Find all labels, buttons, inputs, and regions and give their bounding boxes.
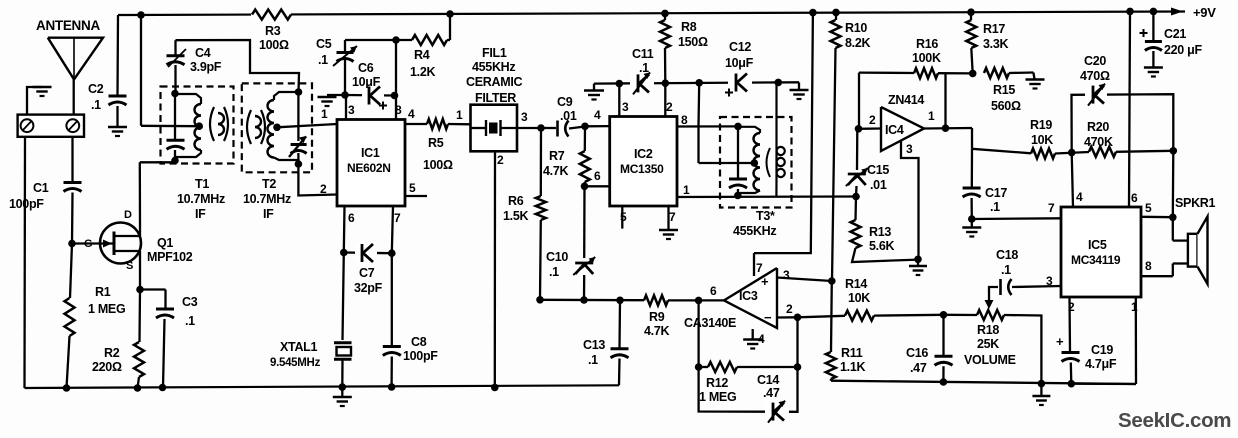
svg-text:1.1K: 1.1K bbox=[840, 360, 865, 374]
wire gate bbox=[72, 242, 101, 244]
svg-text:R14: R14 bbox=[845, 277, 867, 291]
svg-text:.01: .01 bbox=[870, 178, 887, 192]
svg-text:5: 5 bbox=[409, 181, 416, 195]
wire IC4 pin3 bbox=[901, 142, 919, 260]
wire antenna feed bbox=[73, 79, 75, 117]
svg-text:3: 3 bbox=[783, 268, 790, 282]
node T1 bottom bbox=[171, 157, 179, 165]
op-amp IC4 ZN414 bbox=[881, 107, 924, 151]
node T3 bottom bbox=[734, 192, 742, 200]
svg-text:3: 3 bbox=[348, 103, 355, 117]
wire IC5 pin4 bbox=[1072, 153, 1073, 207]
wiper R18 bbox=[988, 288, 990, 303]
svg-text:SPKR1: SPKR1 bbox=[1175, 196, 1216, 210]
winding T2 secondary bbox=[274, 92, 299, 100]
svg-text:10μF: 10μF bbox=[352, 75, 381, 89]
svg-text:ANTENNA: ANTENNA bbox=[36, 18, 100, 33]
svg-text:7: 7 bbox=[394, 211, 401, 225]
node V+ T3 feed bbox=[695, 79, 703, 87]
ground at IC3 pin4 bbox=[752, 329, 754, 339]
IC2 MC1350 bbox=[610, 117, 677, 207]
svg-text:R16: R16 bbox=[916, 37, 938, 51]
wire right terminal to C1 bbox=[71, 137, 73, 181]
wire rail to IC5 pin6 bbox=[1126, 8, 1134, 16]
svg-text:100K: 100K bbox=[912, 51, 941, 65]
svg-text:R18: R18 bbox=[977, 323, 999, 337]
svg-text:G: G bbox=[84, 238, 92, 250]
svg-text:C20: C20 bbox=[1084, 54, 1106, 68]
svg-text:T3*: T3* bbox=[756, 209, 775, 223]
svg-text:C16: C16 bbox=[906, 346, 928, 360]
feedback loop R12 C14 bbox=[796, 317, 798, 367]
svg-text:IC1: IC1 bbox=[361, 146, 380, 160]
svg-text:XTAL1: XTAL1 bbox=[280, 340, 318, 354]
svg-text:10μF: 10μF bbox=[725, 56, 754, 70]
svg-text:455KHz: 455KHz bbox=[472, 60, 515, 74]
wire IC1 pin3 stub bbox=[345, 95, 347, 120]
svg-text:R9: R9 bbox=[649, 310, 665, 324]
node T1 top bbox=[171, 90, 179, 98]
wire FIL1 pin2 to ground rail bbox=[494, 151, 497, 387]
svg-text:10K: 10K bbox=[848, 291, 870, 305]
svg-text:5: 5 bbox=[1145, 201, 1152, 215]
capacitor inside T1 bbox=[167, 139, 185, 142]
svg-text:Q1: Q1 bbox=[157, 236, 173, 250]
svg-text:.1: .1 bbox=[91, 98, 101, 112]
svg-text:R1: R1 bbox=[95, 285, 111, 299]
svg-text:C9: C9 bbox=[557, 95, 573, 109]
svg-text:R7: R7 bbox=[549, 149, 565, 163]
transformer T1 box bbox=[161, 87, 234, 164]
svg-text:.1: .1 bbox=[990, 200, 1000, 214]
svg-text:R11: R11 bbox=[841, 346, 863, 360]
node IC5 pin4 feed bbox=[1068, 149, 1076, 157]
svg-text:C17: C17 bbox=[985, 186, 1007, 200]
node C9 right bbox=[581, 123, 589, 131]
svg-text:.1: .1 bbox=[318, 53, 328, 67]
node IC4 pin2 bbox=[855, 125, 863, 133]
wire signal to IC3 bbox=[536, 296, 544, 304]
wire IC5 pin1 down bbox=[1135, 297, 1137, 384]
svg-text:5: 5 bbox=[620, 210, 627, 224]
wire IC2 pin1 to detector bbox=[677, 195, 856, 198]
svg-text:100pF: 100pF bbox=[9, 197, 44, 211]
svg-text:3: 3 bbox=[906, 142, 913, 156]
ground right of C12 bbox=[798, 82, 800, 89]
wire T2 bottom to IC1 pin2 bbox=[298, 164, 337, 196]
svg-text:3: 3 bbox=[622, 100, 629, 114]
wire IC1 pin5 stub nc bbox=[405, 195, 427, 197]
svg-text:C19: C19 bbox=[1091, 343, 1113, 357]
svg-text:IC5: IC5 bbox=[1088, 238, 1107, 252]
svg-text:.1: .1 bbox=[588, 353, 598, 367]
svg-text:C3: C3 bbox=[182, 295, 198, 309]
svg-text:IC2: IC2 bbox=[634, 147, 653, 161]
svg-text:C1: C1 bbox=[33, 181, 49, 195]
ground below C21 bbox=[1144, 66, 1163, 69]
svg-text:10.7MHz: 10.7MHz bbox=[243, 192, 291, 206]
svg-text:6: 6 bbox=[710, 284, 717, 298]
svg-text:2: 2 bbox=[786, 302, 793, 316]
svg-text:.1: .1 bbox=[639, 61, 649, 75]
wire IC4 output node bbox=[924, 127, 972, 130]
capacitor inside T3 bbox=[737, 126, 739, 178]
svg-text:+: + bbox=[1056, 334, 1064, 349]
svg-text:NE602N: NE602N bbox=[347, 161, 391, 175]
node R20 right bbox=[1170, 147, 1178, 155]
svg-text:C6: C6 bbox=[358, 61, 374, 75]
svg-text:C10: C10 bbox=[546, 250, 568, 264]
svg-text:8.2K: 8.2K bbox=[845, 36, 870, 50]
svg-text:R12: R12 bbox=[706, 376, 728, 390]
svg-text:150Ω: 150Ω bbox=[678, 35, 708, 49]
svg-text:.47: .47 bbox=[910, 361, 927, 375]
svg-text:R10: R10 bbox=[845, 21, 867, 35]
ground below C17 bbox=[971, 219, 973, 227]
resistor R3 bbox=[251, 8, 291, 21]
wire IC3 pin2 bbox=[777, 316, 798, 319]
svg-text:10.7MHz: 10.7MHz bbox=[177, 192, 225, 206]
svg-text:1.5K: 1.5K bbox=[503, 209, 528, 223]
svg-text:IF: IF bbox=[263, 207, 274, 221]
svg-text:.1: .1 bbox=[549, 265, 559, 279]
node IC3 pin3 R10 bbox=[828, 277, 836, 285]
svg-text:C4: C4 bbox=[195, 46, 211, 60]
wire IC5 pin2 C19 bbox=[1068, 297, 1071, 352]
+9V arrow and label bbox=[1171, 8, 1183, 16]
svg-text:32pF: 32pF bbox=[354, 281, 383, 295]
ground at IC4 pin3 bbox=[917, 259, 919, 265]
svg-text:4: 4 bbox=[594, 108, 601, 122]
svg-text:R15: R15 bbox=[993, 83, 1015, 97]
svg-text:C13: C13 bbox=[583, 338, 605, 352]
node T2 bottom bbox=[295, 160, 303, 168]
svg-text:R13: R13 bbox=[869, 225, 891, 239]
node T3 tap bbox=[751, 159, 759, 167]
svg-text:5.6K: 5.6K bbox=[869, 239, 894, 253]
svg-text:+: + bbox=[761, 274, 769, 289]
svg-text:7: 7 bbox=[1048, 201, 1055, 215]
winding T1 secondary link bbox=[210, 107, 214, 141]
wire to IC5 pin7 bbox=[972, 217, 1061, 220]
svg-text:560Ω: 560Ω bbox=[991, 99, 1021, 113]
svg-text:1 MEG: 1 MEG bbox=[699, 390, 736, 404]
svg-text:C11: C11 bbox=[632, 47, 654, 61]
wire IC5 pin5 to speaker bbox=[1141, 216, 1173, 219]
svg-text:R8: R8 bbox=[681, 20, 697, 34]
node T1 tap bbox=[195, 122, 203, 130]
svg-text:1: 1 bbox=[928, 109, 935, 123]
svg-text:R5: R5 bbox=[428, 136, 444, 150]
ground left of C11 bbox=[584, 89, 604, 92]
svg-text:220 μF: 220 μF bbox=[1164, 43, 1202, 57]
svg-text:9.545MHz: 9.545MHz bbox=[270, 357, 321, 369]
ground below XTAL1 bbox=[341, 387, 343, 396]
svg-text:10K: 10K bbox=[1031, 133, 1053, 147]
wire ground rail bottom bbox=[25, 385, 620, 388]
svg-text:R2: R2 bbox=[104, 346, 120, 360]
ground after R15 bbox=[1033, 73, 1034, 80]
wire IC3 pin7 bbox=[753, 253, 755, 276]
wire IC1 pin7 stub bbox=[392, 206, 393, 253]
node C17 ground bbox=[968, 215, 976, 223]
svg-text:R17: R17 bbox=[983, 22, 1005, 36]
ground at IC1 pin3 bbox=[327, 94, 345, 96]
wire IC4 out to C17 bbox=[971, 128, 973, 149]
svg-text:1: 1 bbox=[321, 107, 328, 121]
svg-text:8: 8 bbox=[1145, 259, 1152, 273]
svg-text:6: 6 bbox=[1131, 191, 1138, 205]
wire +9V top rail bbox=[118, 12, 1185, 16]
svg-text:C2: C2 bbox=[88, 82, 104, 96]
svg-text:470Ω: 470Ω bbox=[1080, 69, 1110, 83]
svg-text:100Ω: 100Ω bbox=[259, 38, 289, 52]
wire source node bbox=[139, 263, 141, 290]
wire V+ to T3 bbox=[697, 83, 700, 127]
wire C5 C6 R4 node bbox=[345, 39, 412, 41]
svg-text:C14: C14 bbox=[757, 373, 779, 387]
svg-text:C18: C18 bbox=[996, 248, 1018, 262]
node T2 tap bbox=[273, 124, 281, 132]
svg-text:6: 6 bbox=[348, 211, 355, 225]
node FIL1 out bbox=[517, 127, 541, 129]
svg-text:2: 2 bbox=[666, 100, 673, 114]
svg-text:+9V: +9V bbox=[1193, 5, 1216, 20]
svg-text:4: 4 bbox=[408, 107, 415, 121]
svg-text:C12: C12 bbox=[729, 40, 751, 54]
svg-text:−: − bbox=[764, 310, 772, 325]
svg-text:7: 7 bbox=[669, 210, 676, 224]
svg-text:2: 2 bbox=[320, 182, 327, 196]
wire bottom right ground run bbox=[831, 381, 1136, 384]
svg-text:T2: T2 bbox=[262, 177, 276, 191]
terminal block TB1 bbox=[18, 115, 84, 137]
wire IC2 pin3 stub bbox=[618, 84, 620, 117]
svg-text:1: 1 bbox=[456, 108, 463, 122]
svg-text:100pF: 100pF bbox=[403, 349, 438, 363]
svg-text:1: 1 bbox=[683, 183, 690, 197]
svg-text:220Ω: 220Ω bbox=[92, 360, 122, 374]
svg-text:455KHz: 455KHz bbox=[733, 224, 776, 238]
wire V+ line C11 C12 bbox=[594, 82, 799, 83]
svg-text:1 MEG: 1 MEG bbox=[88, 302, 125, 316]
svg-text:R19: R19 bbox=[1030, 118, 1052, 132]
svg-text:3.3K: 3.3K bbox=[983, 37, 1008, 51]
svg-text:2: 2 bbox=[497, 153, 504, 167]
svg-text:IF: IF bbox=[195, 207, 206, 221]
wire IC5 pin8 to speaker bbox=[1141, 275, 1173, 277]
svg-text:MC1350: MC1350 bbox=[620, 162, 664, 176]
node R13 ground bbox=[914, 255, 922, 263]
svg-text:C8: C8 bbox=[411, 335, 427, 349]
winding T2 primary link bbox=[247, 110, 251, 144]
svg-text:IC4: IC4 bbox=[885, 123, 904, 137]
trimmer capacitor inside T2 bbox=[297, 93, 299, 141]
svg-text:D: D bbox=[124, 209, 132, 221]
svg-text:25K: 25K bbox=[977, 337, 999, 351]
svg-text:C5: C5 bbox=[316, 37, 332, 51]
svg-text:3.9pF: 3.9pF bbox=[190, 60, 222, 74]
node IC2 pin6 bbox=[581, 183, 589, 191]
svg-text:FILTER: FILTER bbox=[475, 91, 516, 105]
svg-text:4: 4 bbox=[1076, 190, 1083, 204]
svg-text:MPF102: MPF102 bbox=[147, 250, 193, 264]
wire IC2 pin2 stub bbox=[664, 83, 666, 117]
IC1 NE602N bbox=[337, 120, 405, 207]
IC5 MC34119 bbox=[1061, 207, 1141, 297]
wire T2 tap to IC1 pin1 bbox=[277, 124, 337, 127]
wire IC1 pin6 stub bbox=[343, 206, 346, 253]
wire C4 to T2 top bbox=[176, 40, 300, 92]
svg-text:C21: C21 bbox=[1164, 27, 1186, 41]
winding T1 primary bbox=[175, 94, 201, 104]
svg-text:MC34119: MC34119 bbox=[1071, 253, 1121, 267]
svg-text:CA3140E: CA3140E bbox=[684, 316, 736, 330]
winding T3 secondary link bbox=[767, 148, 771, 177]
wire drain to T1 bbox=[139, 162, 141, 224]
svg-text:8: 8 bbox=[681, 113, 688, 127]
svg-text:.47: .47 bbox=[763, 386, 780, 400]
svg-text:.1: .1 bbox=[1001, 263, 1011, 277]
svg-text:4.7K: 4.7K bbox=[543, 164, 568, 178]
svg-text:1.2K: 1.2K bbox=[410, 65, 435, 79]
svg-text:4.7K: 4.7K bbox=[644, 324, 669, 338]
svg-text:CERAMIC: CERAMIC bbox=[466, 75, 523, 89]
svg-text:R6: R6 bbox=[508, 194, 524, 208]
op-amp IC3 CA3140E bbox=[724, 268, 777, 328]
wire rail to T1 tap bbox=[137, 11, 145, 19]
svg-text:R20: R20 bbox=[1087, 120, 1109, 134]
node gate junction bbox=[68, 240, 76, 248]
ground at IC2 pin7 bbox=[667, 206, 669, 229]
wire IC1 pin8 stub bbox=[395, 96, 397, 120]
ground near antenna bbox=[27, 87, 42, 114]
node detector bbox=[852, 193, 860, 201]
winding T3 primary bbox=[738, 127, 760, 133]
svg-text:6: 6 bbox=[594, 169, 601, 183]
transformer T2 box bbox=[242, 83, 312, 172]
ground below C2 bbox=[108, 126, 127, 129]
node T3 top bbox=[734, 123, 742, 131]
svg-text:C15: C15 bbox=[867, 163, 889, 177]
svg-text:T1: T1 bbox=[195, 177, 209, 191]
svg-text:R3: R3 bbox=[265, 24, 281, 38]
svg-text:IC3: IC3 bbox=[739, 289, 758, 303]
svg-text:VOLUME: VOLUME bbox=[964, 353, 1016, 367]
ground on volume line bbox=[1040, 384, 1042, 396]
svg-text:100Ω: 100Ω bbox=[423, 158, 453, 172]
svg-text:4.7μF: 4.7μF bbox=[1085, 357, 1117, 371]
transformer T3 box bbox=[720, 117, 792, 208]
svg-text:7: 7 bbox=[756, 261, 763, 275]
wire IC3 pin3 bbox=[777, 278, 832, 282]
svg-text:C7: C7 bbox=[359, 266, 375, 280]
svg-text:SeekIC.com: SeekIC.com bbox=[1118, 409, 1231, 432]
node C12 right bbox=[775, 79, 783, 87]
svg-text:R4: R4 bbox=[414, 48, 430, 62]
svg-text:ZN414: ZN414 bbox=[888, 93, 924, 107]
svg-text:FIL1: FIL1 bbox=[482, 46, 507, 60]
svg-text:2: 2 bbox=[869, 113, 876, 127]
svg-text:3: 3 bbox=[521, 110, 528, 124]
wire left terminal down bbox=[23, 137, 26, 388]
svg-text:.1: .1 bbox=[185, 314, 195, 328]
wire IC2 pin5 stub nc bbox=[621, 206, 623, 229]
node T2 top bbox=[295, 88, 303, 96]
